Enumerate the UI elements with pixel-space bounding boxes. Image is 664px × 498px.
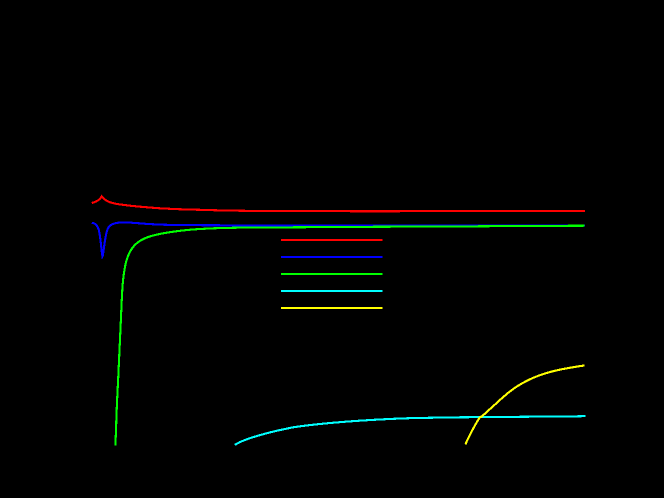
curve 3 green	[115, 226, 584, 446]
legend sample red	[281, 239, 382, 241]
curve 1 red	[92, 196, 585, 211]
legend sample cyan	[281, 290, 382, 292]
legend sample yellow	[281, 307, 382, 309]
curve 4 cyan	[235, 416, 586, 445]
curve 5 yellow	[466, 366, 585, 445]
curve 2 blue	[92, 222, 585, 256]
legend sample blue	[281, 256, 382, 258]
legend sample green	[281, 273, 382, 275]
